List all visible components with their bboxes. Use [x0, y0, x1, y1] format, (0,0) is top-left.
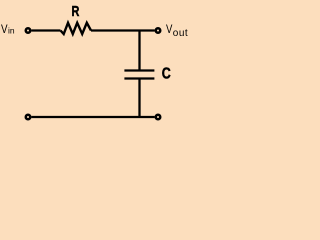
- bottom wire rail: [31, 116, 154, 118]
- node Vout terminal: [155, 27, 162, 34]
- label Vin: [1, 23, 15, 36]
- svg-text:C: C: [162, 65, 171, 83]
- bottom-left terminal: [25, 114, 32, 121]
- wire top junction down to capacitor: [138, 31, 140, 71]
- resistor R: [61, 23, 92, 34]
- svg-text:in: in: [8, 26, 15, 36]
- capacitor C top plate: [124, 69, 154, 71]
- bottom-right terminal: [155, 114, 162, 121]
- node Vin terminal: [25, 27, 32, 34]
- capacitor C bottom plate: [124, 77, 154, 79]
- wire from Vin to resistor: [31, 29, 60, 31]
- wire from resistor to Vout: [91, 29, 155, 31]
- wire capacitor bottom to bottom rail: [138, 79, 140, 118]
- label Vout: [166, 23, 188, 39]
- svg-text:R: R: [72, 3, 80, 20]
- svg-text:out: out: [173, 28, 188, 39]
